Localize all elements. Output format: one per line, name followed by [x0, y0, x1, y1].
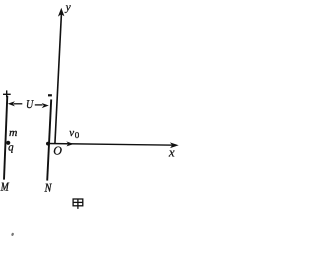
origin dot O: [46, 142, 50, 146]
svg-text:m: m: [9, 127, 17, 139]
svg-text:y: y: [65, 1, 72, 13]
minus sign above plate N: [48, 94, 52, 96]
plus sign on plate M: [3, 90, 11, 97]
svg-text:x: x: [168, 144, 175, 159]
U dimension right arrow: [35, 103, 49, 108]
U dimension left arrow: [8, 101, 22, 106]
svg-text:U: U: [26, 97, 34, 111]
plate N: [47, 99, 51, 180]
stray speck (scan artifact): [11, 232, 14, 236]
svg-text:v0: v0: [69, 127, 79, 140]
y-axis: [55, 12, 62, 144]
x-axis arrowhead: [170, 142, 179, 148]
v0 velocity arrowhead on x-axis: [66, 141, 74, 146]
x-axis: [48, 144, 177, 146]
plate M: [4, 96, 7, 180]
svg-text:M: M: [0, 180, 10, 194]
svg-text:q: q: [8, 142, 14, 154]
svg-text:O: O: [53, 143, 62, 157]
y-axis arrowhead: [58, 8, 65, 17]
svg-text:N: N: [44, 180, 52, 194]
charge dot on plate M: [6, 141, 10, 145]
caption 甲 drawn as strokes: [73, 199, 83, 209]
